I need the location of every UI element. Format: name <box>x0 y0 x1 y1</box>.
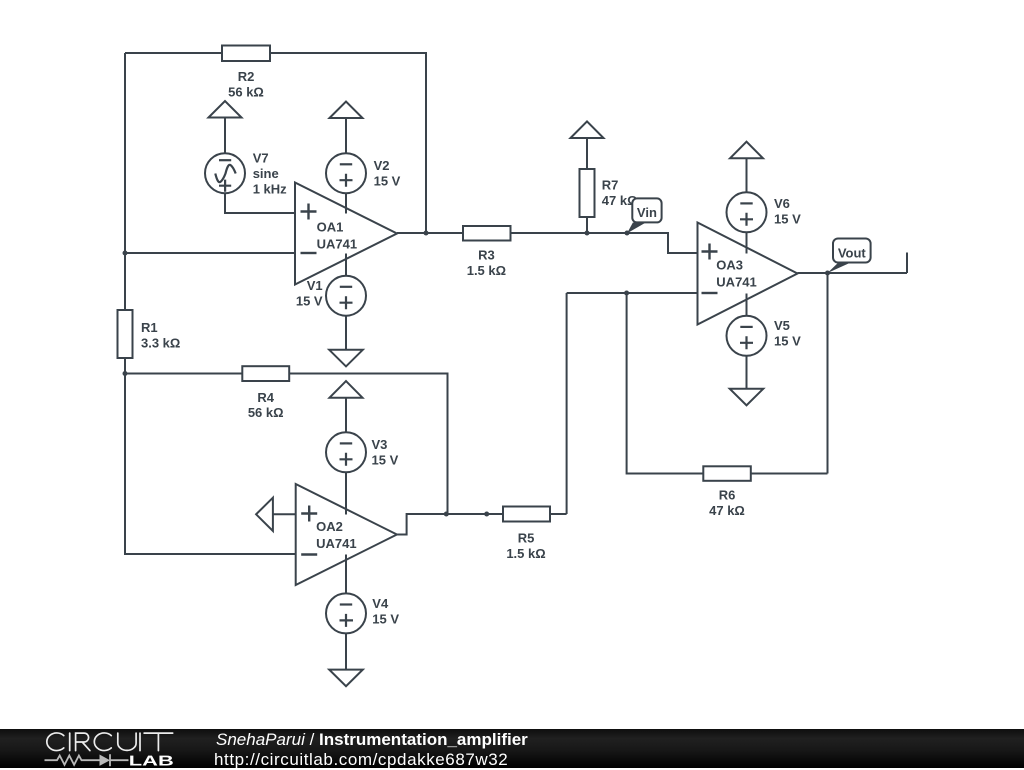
ground below V5 <box>730 389 764 406</box>
logo squiggle resistor <box>45 754 129 766</box>
logo letter T <box>144 733 173 751</box>
svg-text:R2: R2 <box>238 69 255 84</box>
logo letter C <box>47 733 64 751</box>
svg-text:1.5 kΩ: 1.5 kΩ <box>467 263 506 278</box>
wire V7 to OA1 plus <box>224 118 226 154</box>
wire V3 top <box>345 398 347 433</box>
svg-text:UA741: UA741 <box>716 275 756 290</box>
node junction OA1 feedback <box>424 231 429 236</box>
wire V6 top <box>746 158 748 192</box>
wire V2 to OA1 <box>345 193 347 213</box>
svg-text:56 kΩ: 56 kΩ <box>248 405 284 420</box>
svg-text:V5: V5 <box>774 318 790 333</box>
svg-text:OA3: OA3 <box>716 258 743 273</box>
svg-text:15 V: 15 V <box>372 453 399 468</box>
source V4 <box>326 593 366 633</box>
wire OA3 to V5 <box>746 294 748 316</box>
wire top loop right <box>270 53 426 233</box>
wire V3 to OA2 <box>345 472 347 514</box>
svg-text:V2: V2 <box>374 158 390 173</box>
source V2 <box>326 153 366 193</box>
svg-text:LAB: LAB <box>129 753 174 768</box>
svg-text:R7: R7 <box>602 178 619 193</box>
footer bar <box>0 729 1024 768</box>
svg-text:56 kΩ: 56 kΩ <box>228 84 264 99</box>
svg-text:OA2: OA2 <box>316 519 343 534</box>
wire left vertical lower <box>125 358 296 554</box>
svg-text:15 V: 15 V <box>296 293 323 308</box>
op-amp OA3 <box>698 223 798 325</box>
source V1 <box>326 276 366 316</box>
node junction R5 left <box>484 512 489 517</box>
wire output stub <box>906 253 908 274</box>
resistor R4 <box>242 366 289 381</box>
svg-text:Vin: Vin <box>637 205 657 220</box>
svg-text:sine: sine <box>253 166 279 181</box>
wire OA1 to V1 <box>345 254 347 276</box>
op-amp OA2 <box>296 484 397 585</box>
ground below V4 <box>329 670 363 687</box>
svg-text:OA1: OA1 <box>317 220 344 235</box>
resistor R6 <box>703 466 751 481</box>
wire Vout feedback down <box>827 273 829 474</box>
wire R4 run <box>125 374 448 515</box>
wire left vertical upper <box>124 53 126 310</box>
resistor R5 <box>503 507 550 522</box>
svg-text:Vout: Vout <box>838 245 867 260</box>
node junction OA3 minus <box>624 291 629 296</box>
svg-text:1 kHz: 1 kHz <box>253 182 287 197</box>
wire OA2 plus arrow <box>273 513 296 515</box>
resistor R2 <box>222 46 270 62</box>
power arrow OA2 plus (left) <box>256 498 273 531</box>
svg-text:3.3 kΩ: 3.3 kΩ <box>141 335 180 350</box>
svg-text:R1: R1 <box>141 320 158 335</box>
node junction R7 <box>585 231 590 236</box>
flag Vin <box>627 198 662 233</box>
logo letter U <box>118 733 136 750</box>
wire OA2 output <box>397 514 567 535</box>
flag Vout <box>828 239 871 274</box>
svg-text:47 kΩ: 47 kΩ <box>709 503 745 518</box>
source V5 <box>727 316 767 356</box>
resistor R3 <box>463 226 511 241</box>
logo <box>0 725 200 768</box>
wire top loop left <box>125 52 222 54</box>
svg-text:15 V: 15 V <box>774 212 801 227</box>
svg-text:V4: V4 <box>372 596 389 611</box>
resistor R7 <box>580 169 595 217</box>
footer title <box>216 730 528 750</box>
wire R6 run <box>627 293 828 474</box>
wire OA1 minus input <box>125 252 295 254</box>
node junction Vin <box>625 231 630 236</box>
logo letter C <box>94 733 111 751</box>
logo diode <box>100 755 111 766</box>
wire OA3 output <box>798 272 908 274</box>
svg-text:V3: V3 <box>372 437 388 452</box>
wire OA1 output <box>397 232 627 234</box>
svg-text:R4: R4 <box>257 390 274 405</box>
wire R5 to OA3 minus riser <box>566 293 568 514</box>
node junction Vout <box>825 271 830 276</box>
logo letter I <box>139 733 141 751</box>
wire V4 to ground <box>345 633 347 669</box>
resistor R1 <box>118 310 133 358</box>
wire OA3 minus <box>567 292 698 294</box>
source V7 sine <box>205 153 245 193</box>
svg-text:UA741: UA741 <box>316 536 356 551</box>
source V3 <box>326 432 366 472</box>
svg-text:15 V: 15 V <box>774 334 801 349</box>
svg-text:V7: V7 <box>253 151 269 166</box>
node junction OA1 minus <box>123 251 128 256</box>
svg-text:UA741: UA741 <box>317 237 357 252</box>
svg-text:V1: V1 <box>307 278 323 293</box>
logo letter I <box>69 733 71 751</box>
wire R7 top <box>586 138 588 169</box>
power arrow above V3 <box>330 381 363 398</box>
power arrow above V7 <box>209 101 242 118</box>
svg-text:R6: R6 <box>719 488 736 503</box>
wire R7 bottom <box>586 217 588 233</box>
node junction R1 R4 <box>123 371 128 376</box>
source V6 <box>727 192 767 232</box>
node junction OA2 out <box>444 512 449 517</box>
footer url <box>214 750 508 770</box>
ground below V1 <box>329 350 363 367</box>
svg-text:15 V: 15 V <box>374 173 401 188</box>
svg-text:V6: V6 <box>774 196 790 211</box>
wire V7 bottom <box>225 193 295 213</box>
wire V2 top <box>345 118 347 153</box>
power arrow above R7 <box>571 121 604 138</box>
svg-text:R3: R3 <box>478 248 495 263</box>
power arrow above V2 <box>330 102 363 119</box>
power arrow above V6 <box>730 142 763 159</box>
wire V5 to ground <box>746 356 748 389</box>
wire V1 to ground <box>345 316 347 350</box>
wire V6 to OA3 <box>746 232 748 253</box>
svg-text:1.5 kΩ: 1.5 kΩ <box>506 546 545 561</box>
svg-text:R5: R5 <box>518 531 535 546</box>
logo letter R <box>76 733 90 751</box>
op-amp OA1 <box>295 183 397 285</box>
wire Vin to OA3 plus <box>627 233 698 253</box>
wire OA2 to V4 <box>345 555 347 594</box>
logo diode bar <box>109 754 111 766</box>
svg-text:15 V: 15 V <box>372 612 399 627</box>
